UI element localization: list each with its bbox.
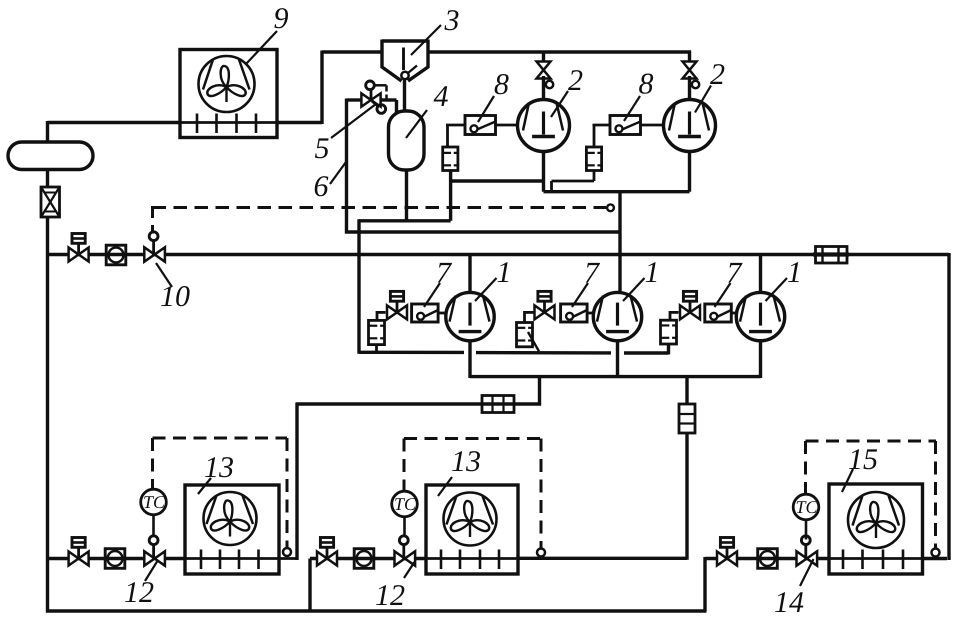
thermostat TC right (793, 494, 819, 520)
solenoid valve evaporator 13 left (69, 552, 79, 566)
svg-text:5: 5 (315, 132, 330, 165)
leader 2 left (551, 91, 568, 117)
svg-text:9: 9 (274, 2, 289, 35)
svg-text:14: 14 (774, 586, 804, 619)
vibration damper left (443, 147, 458, 171)
svg-text:12: 12 (375, 579, 405, 612)
leader 9 (246, 31, 277, 64)
wire: liquid main down the left side (46, 217, 49, 613)
compressor 2 right (664, 100, 716, 152)
wire: receiver to drier (46, 169, 49, 188)
svg-text:13: 13 (204, 451, 234, 484)
suction solenoid valve middle group (535, 305, 545, 319)
leader 1 middle (623, 278, 645, 301)
sight glass evaporator 13 left (105, 549, 125, 569)
wire: liquid branch line with valve 10 (48, 253, 950, 256)
compressor 2 left (518, 100, 570, 152)
pressure switch 8 left (465, 116, 496, 135)
condenser fan unit 9 (180, 121, 277, 124)
compressor 1 left (446, 292, 494, 340)
wire: switch 8 right connections (641, 124, 665, 127)
suction controller 7 right (705, 304, 732, 322)
suction solenoid valve left group (387, 305, 397, 319)
leader 3 (411, 25, 441, 55)
oil float valve 5 (361, 93, 371, 106)
wire: oil equalizing branch (451, 179, 544, 182)
wire: evaporator 13 middle feed from rail (308, 559, 311, 612)
evaporator unit 13 left (186, 557, 297, 560)
wire: vertical muffler drop (685, 375, 688, 404)
svg-text:1: 1 (645, 256, 660, 289)
suction line muffler (816, 247, 848, 264)
wire: suction/oil line of compressor row (359, 351, 464, 355)
suction controller 7 middle (561, 304, 588, 322)
leader 1 left (475, 278, 497, 301)
cold room dashed boundary 15 (806, 440, 937, 443)
thermostat TC middle (392, 491, 418, 517)
leader 15 (842, 469, 853, 492)
thermo valve 14 (797, 551, 807, 565)
vibration damper right (586, 147, 601, 171)
leader 7 right (715, 283, 731, 307)
compressor 1 middle (593, 292, 641, 340)
svg-text:TC: TC (795, 497, 818, 517)
compressor 2 left discharge valve (542, 52, 545, 64)
leader 2 right (695, 86, 711, 113)
wire: switch 8 left connections (496, 124, 519, 127)
room sensor circle 15 (932, 549, 940, 557)
oil receiver 4 (389, 111, 425, 170)
wire: oil collecting header (357, 219, 360, 353)
cold room dashed boundary 13 middle (404, 437, 541, 440)
receiver vessel (8, 142, 93, 170)
leader 8 left (478, 96, 494, 122)
leader 14 (800, 559, 814, 586)
svg-text:12: 12 (124, 576, 154, 609)
leader 7 left (424, 283, 440, 307)
leader 13 left (198, 478, 211, 494)
wire: drop to lower muffler line (538, 377, 541, 406)
svg-text:6: 6 (314, 170, 329, 203)
room sensor circle 13 middle (537, 549, 545, 557)
wire: evaporator 13 left feed line (48, 557, 187, 560)
compressor 1 right (736, 292, 784, 340)
lower line muffler (482, 396, 514, 413)
thermo valve 12 middle (395, 551, 405, 565)
leader 12 middle (404, 562, 415, 578)
wire: separator drain to oil receiver 4 (403, 80, 406, 112)
evaporator unit 13 middle (427, 557, 518, 560)
svg-text:8: 8 (639, 68, 654, 101)
svg-text:13: 13 (451, 445, 481, 478)
leader 4 (406, 110, 427, 138)
suction filter left group (377, 311, 386, 314)
svg-text:2: 2 (568, 64, 583, 97)
wire: bus drop to condenser line (320, 51, 323, 125)
leader 10 (156, 263, 172, 287)
sight glass on liquid branch (106, 245, 126, 265)
wire: damper right drop (593, 171, 596, 182)
wire: compressor row discharge header (468, 340, 471, 379)
float pilot in separator 3 (401, 72, 408, 79)
suction filter middle group (525, 311, 534, 314)
pilot tap circle on suction riser (607, 204, 614, 211)
filter-drier (41, 187, 60, 217)
leader 12 left (145, 560, 158, 581)
wire: bottom rail (46, 609, 707, 612)
wire: valve 5 to oil receiver top (381, 98, 397, 101)
solenoid valve on liquid branch (69, 248, 79, 262)
pressure switch 8 right (610, 116, 641, 135)
suction controller 7 left (412, 304, 439, 322)
leader 7 middle (572, 283, 588, 307)
wire: compressors 2 suction loop (542, 150, 545, 192)
thermostat TC left (141, 489, 167, 515)
dashed pilot line from valve 10 (153, 206, 607, 209)
wire: drop to evaporator 13 left return (295, 403, 298, 561)
compressor 1 left suction stub (468, 255, 471, 295)
svg-text:TC: TC (394, 494, 417, 514)
thermo valve 12 left (144, 551, 154, 565)
compressor 1 right suction stub (759, 255, 762, 295)
suction filter right group (670, 311, 679, 314)
wire: damper drop joins oil header (449, 170, 452, 221)
wire: condenser outlet line to receiver (48, 121, 181, 124)
vertical muffler (679, 404, 695, 433)
wire: suction riser to compressor row (618, 190, 621, 294)
oil separator 3 (382, 39, 428, 42)
svg-text:2: 2 (710, 58, 725, 91)
wire: valve 5 oil return drop (347, 98, 363, 101)
svg-text:1: 1 (497, 256, 512, 289)
leader 8 right (624, 96, 640, 121)
wire: right suction riser down (947, 253, 950, 560)
svg-text:10: 10 (160, 280, 190, 313)
svg-text:1: 1 (787, 256, 802, 289)
sight glass evaporator 13 middle (354, 549, 374, 569)
wire: vertical muffler to evaporator 13 middle return (685, 433, 688, 560)
wire: oil return run to suction riser (345, 230, 620, 233)
svg-text:TC: TC (143, 492, 166, 512)
solenoid valve evaporator 15 (717, 552, 727, 566)
leader 13 middle (438, 477, 452, 496)
svg-text:4: 4 (434, 80, 449, 113)
sight glass evaporator 15 (758, 549, 778, 569)
leader 6 (330, 162, 346, 184)
svg-text:3: 3 (444, 4, 460, 37)
cold room dashed boundary 13 left (153, 437, 288, 440)
wire: evaporator 15 feed line (705, 557, 830, 560)
wire: discharge top bus (322, 50, 382, 53)
pressure regulator 10 (144, 247, 154, 261)
compressor 2 right discharge valve (688, 51, 691, 65)
evaporator unit 15 (830, 557, 923, 560)
svg-text:8: 8 (494, 68, 509, 101)
solenoid valve evaporator 13 middle (317, 552, 327, 566)
leader 1 right (766, 278, 788, 301)
suction solenoid valve right group (680, 305, 690, 319)
wire: oil receiver drain (405, 170, 408, 222)
leader 5 (331, 104, 376, 138)
room sensor circle 13 left (283, 548, 291, 556)
